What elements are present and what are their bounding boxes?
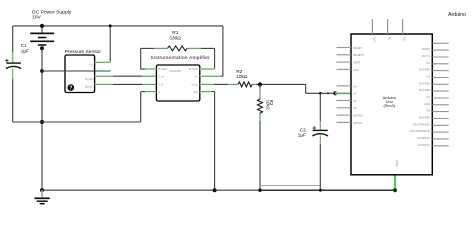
svg-text:A4/SDA: A4/SDA (353, 114, 363, 118)
svg-text:V out: V out (191, 83, 198, 87)
svg-text:GND: GND (395, 160, 399, 166)
svg-text:3v3: 3v3 (372, 37, 376, 42)
resistor R1 330ohm (154, 46, 201, 51)
resistor R2 10kohm (229, 82, 256, 87)
svg-text:C1: C1 (21, 43, 27, 48)
svg-text:D7: D7 (426, 95, 430, 99)
svg-text:A3: A3 (353, 106, 357, 110)
wire: sensor plus to 10V rail (109, 24, 112, 62)
node: junction ground/R3 (258, 189, 261, 192)
wire: IA Ref down to ground rail (200, 92, 215, 191)
wire: IA Vout to R2 (200, 83, 229, 85)
svg-text:V+: V+ (89, 63, 93, 67)
Arduino Uno U3 box (351, 34, 432, 175)
node: junction battery/left-rail-link (40, 120, 44, 124)
Arduino right pins (410, 43, 449, 147)
Arduino top pins 3v3/5v/Vin (372, 19, 406, 42)
pin: IA V- leg (left row4) (145, 91, 156, 93)
svg-text:1µF: 1µF (21, 49, 29, 54)
svg-text:D4: D4 (426, 74, 430, 78)
svg-text:V+: V+ (195, 74, 199, 78)
svg-text:A2: A2 (353, 99, 357, 103)
wire: sensor signal 1 to IA (95, 75, 157, 77)
ground symbol (35, 190, 50, 204)
svg-text:R2: R2 (236, 69, 242, 75)
svg-text:D9 PWM: D9 PWM (419, 115, 431, 119)
svg-text:Instrumentation Amplifier: Instrumentation Amplifier (151, 55, 210, 61)
svg-text:A5/SCL: A5/SCL (353, 121, 363, 125)
svg-text:Signal: Signal (85, 85, 93, 89)
svg-text:1µF: 1µF (298, 133, 306, 138)
wire: Arduino GND to ground rail (green) (393, 175, 397, 193)
svg-text:D12/MISO: D12/MISO (417, 136, 431, 140)
wire: left rail upper (10V to C1) (12, 26, 14, 53)
node: junction battery/sensor-minus (40, 69, 44, 73)
label: DC Power Supply 10V (32, 9, 72, 20)
capacitor C2 1uF (polarized) (312, 93, 328, 190)
battery B1 (DC Power Supply) (30, 24, 54, 50)
svg-text:D10 PWM/SS: D10 PWM/SS (413, 122, 430, 126)
svg-text:330Ω: 330Ω (169, 36, 181, 42)
node: junction ground/C2 (319, 189, 322, 192)
wire: R1 right to IA R-gain right (200, 48, 215, 69)
svg-text:10kΩ: 10kΩ (236, 74, 248, 80)
label: R3 10k (rotated) (266, 100, 274, 110)
label: R2 10k (236, 69, 248, 80)
svg-text:D1/TX: D1/TX (422, 54, 430, 58)
svg-text:A1: A1 (353, 92, 357, 96)
svg-text:Arduino: Arduino (448, 12, 466, 18)
op-amp U1 instrumentation amplifier INA125P box (156, 65, 199, 101)
svg-text:D0/RX: D0/RX (422, 47, 430, 51)
svg-text:D13/SCK: D13/SCK (418, 143, 430, 147)
label: C1 1uF (21, 43, 29, 53)
svg-text:Vin: Vin (403, 37, 407, 41)
label: C2 1uF (298, 127, 306, 137)
svg-text:V in+: V in+ (158, 74, 165, 78)
svg-text:D2: D2 (426, 61, 430, 65)
capacitor C1 1uF (polarized) (5, 52, 21, 79)
wire: R2 to Arduino A1 (256, 84, 351, 95)
node: junction C2 branch (319, 92, 322, 95)
wire: sensor signal 2 to IA (95, 83, 157, 85)
wire: left rail lower (C1 down, link to IA V-) (13, 79, 146, 122)
wire: +10V top rail (13, 25, 223, 27)
svg-text:R Gain: R Gain (158, 67, 167, 71)
node: junction R2/R3 (258, 82, 262, 86)
pin: sensor V+ leg (95, 61, 111, 63)
svg-text:RESET: RESET (353, 46, 363, 50)
svg-text:Ref: Ref (194, 90, 199, 94)
svg-text:(Rev3): (Rev3) (383, 103, 395, 108)
svg-text:GND: GND (424, 102, 430, 106)
wire: sensor minus wire from battery column (drawn over box) (42, 70, 111, 72)
pressure sensor U2 box (65, 55, 95, 93)
svg-text:D5 PWM: D5 PWM (419, 81, 431, 85)
svg-text:D8: D8 (426, 109, 430, 113)
svg-text:V in-: V in- (158, 83, 164, 87)
svg-text:Pressure Sensor: Pressure Sensor (65, 49, 102, 55)
svg-text:?: ? (69, 86, 72, 92)
svg-text:10V: 10V (32, 14, 41, 20)
svg-text:INA125P: INA125P (169, 69, 181, 73)
label: R1 330 (169, 30, 181, 42)
node: junction ground/IA Ref (213, 188, 217, 192)
svg-text:AREF: AREF (353, 61, 361, 65)
wire: link R3 to C2 (light) (260, 184, 320, 186)
node: junction ground/battery (40, 188, 44, 192)
wire: battery negative vertical down to ground rail (41, 48, 43, 190)
wire: IA V+ to 10V rail (200, 26, 223, 76)
svg-text:RESET2: RESET2 (353, 53, 364, 57)
resistor R3 10kohm (vertical) (258, 84, 263, 190)
svg-text:V-: V- (158, 90, 161, 94)
svg-text:D11 PWM/MOSI: D11 PWM/MOSI (410, 129, 431, 133)
svg-text:10kΩ: 10kΩ (266, 100, 271, 110)
svg-text:R1: R1 (172, 30, 178, 36)
svg-text:A0: A0 (353, 84, 357, 88)
Arduino left pins (337, 46, 365, 125)
svg-text:ioref: ioref (353, 68, 359, 72)
svg-text:R Gain: R Gain (189, 67, 198, 71)
wire: ground rail (42, 189, 395, 191)
wire: IA R-gain left to R1 (141, 48, 157, 69)
svg-text:Signal: Signal (85, 77, 93, 81)
svg-text:-: - (92, 71, 93, 75)
svg-text:D6 PWM: D6 PWM (419, 88, 431, 92)
svg-text:D3 PWM: D3 PWM (419, 68, 431, 72)
